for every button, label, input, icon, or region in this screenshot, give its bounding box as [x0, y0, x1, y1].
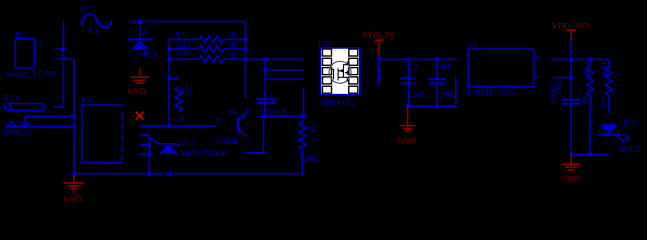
- node junction R12 right: [244, 47, 248, 51]
- svg-text:1.5uF: 1.5uF: [407, 89, 427, 99]
- svg-text:PWR2.5: PWR2.5: [3, 127, 32, 137]
- svg-text:LED5: LED5: [618, 117, 639, 127]
- node junction row2: [264, 68, 268, 72]
- svg-text:DZ1: DZ1: [179, 138, 195, 148]
- node junction jack sleeve pin b: [72, 125, 76, 129]
- svg-text:P10: P10: [4, 93, 17, 103]
- resistor R13 1K: [169, 48, 245, 63]
- node junction bracket GND bus: [148, 172, 152, 176]
- power VDD_3V3: [552, 21, 589, 41]
- wire right GND bus: [571, 153, 609, 155]
- node junction C84 top: [435, 58, 439, 62]
- node junction D1 top: [138, 20, 142, 24]
- svg-text:1K: 1K: [227, 50, 238, 60]
- svg-text:1K: 1K: [581, 95, 590, 105]
- diode D1 SR54: [128, 22, 159, 60]
- ground GND (right): [562, 154, 581, 170]
- svg-text:GND: GND: [562, 174, 580, 184]
- wire U16 pin wire row3: [265, 78, 304, 80]
- node junction zener anode on GND bus: [167, 172, 171, 176]
- wire emitter net to R8 node: [259, 115, 304, 117]
- node junction C2 bottom: [406, 104, 410, 108]
- wire left resistor bus: [168, 39, 170, 126]
- connector P10 barrel jack: [3, 93, 45, 137]
- transistor Q4 S8550: [216, 105, 251, 146]
- wire 3V3 rail vertical: [570, 40, 572, 99]
- node junction left bus to base wire: [167, 124, 171, 128]
- svg-text:U16: U16: [318, 39, 333, 49]
- wire GND bus right riser to R8: [302, 150, 304, 174]
- node junction R8 top: [302, 114, 306, 118]
- node junction R13 left: [167, 58, 171, 62]
- resistor R12 1K: [169, 39, 245, 53]
- no-ERC marker red X: [136, 112, 144, 121]
- ground GND (below D1): [130, 68, 149, 84]
- node junction C2 top: [407, 58, 411, 62]
- capacitor C85 100nF (vertical): [549, 80, 581, 154]
- node junction rail to U1 pin2: [569, 76, 573, 80]
- svg-text:SR54: SR54: [138, 50, 159, 60]
- node junction R30 top: [588, 58, 592, 62]
- svg-text:P15: P15: [15, 29, 28, 39]
- wire K3 contact stubs bracket: [140, 135, 150, 174]
- resistor R30 (vertical): [581, 59, 594, 154]
- resistor R8 10K (vertical): [299, 122, 319, 164]
- IC U16 FDS4935: [318, 39, 360, 108]
- resistor R10 (vertical): [599, 63, 612, 113]
- svg-text:R13: R13: [177, 48, 191, 58]
- capacitor C84: [429, 59, 457, 106]
- wire U16 pin4 drop to R8: [303, 88, 305, 116]
- svg-text:K3: K3: [81, 95, 91, 105]
- wire U1 out to 3V3 rail: [551, 58, 571, 60]
- svg-text:R11: R11: [176, 29, 190, 39]
- wire U16 pin wire row1: [245, 58, 304, 60]
- svg-text:GND: GND: [128, 86, 146, 96]
- resistor R11 1K: [169, 29, 245, 43]
- svg-text:VDD_5V: VDD_5V: [363, 30, 397, 40]
- node junction row1 to drop: [264, 58, 268, 62]
- svg-text:1.5A: 1.5A: [82, 26, 100, 36]
- node junction rail pin3: [377, 67, 381, 71]
- wire cap ground bus: [408, 76, 456, 107]
- fuse F1 1.5A: [81, 3, 113, 36]
- wire main top rail: [130, 21, 245, 23]
- wire 3V3 horizontal rail: [571, 59, 609, 66]
- svg-text:10uF: 10uF: [439, 89, 457, 99]
- connector P15: [5, 29, 55, 79]
- svg-text:C: C: [245, 136, 251, 146]
- svg-text:F1: F1: [81, 3, 90, 13]
- node junction R30 leg: [589, 153, 593, 157]
- wire R9 top stub: [169, 77, 178, 79]
- wire VDD_5V rail to U1: [379, 58, 458, 60]
- ground GND (middle): [399, 106, 415, 131]
- resistor R9 1K (vertical): [175, 86, 191, 123]
- node junction rail to U1 out: [569, 58, 573, 62]
- svg-text:10K: 10K: [303, 153, 319, 163]
- wire U1 pin2 to rail: [553, 76, 571, 78]
- node junction P15 pin1 on +12V vertical: [62, 47, 66, 51]
- wire R8 node down: [302, 116, 304, 121]
- relay K3: [81, 95, 122, 163]
- wire U16 pin wire row2: [265, 69, 304, 71]
- svg-text:100nF: 100nF: [266, 107, 288, 117]
- power VDD_5V: [363, 30, 397, 56]
- wire P15 pin1 stub: [55, 48, 64, 50]
- node junction R9 stub: [167, 76, 171, 80]
- svg-text:FDS4935: FDS4935: [321, 97, 354, 107]
- svg-text:R8: R8: [307, 123, 317, 133]
- capacitor C2 polarized: [401, 59, 427, 106]
- node junction C84 bottom: [435, 104, 439, 108]
- wire U16 right rail: [378, 56, 380, 86]
- capacitor C1 100nF: [257, 60, 288, 117]
- svg-text:LM1117-3.3V: LM1117-3.3V: [468, 88, 518, 98]
- node junction C85 leg: [569, 153, 573, 157]
- svg-text:1K: 1K: [176, 113, 187, 123]
- ground GND (bottom left): [63, 176, 84, 193]
- svg-text:BLUE: BLUE: [620, 144, 642, 154]
- svg-text:Header 2 DNP: Header 2 DNP: [5, 69, 55, 79]
- wire jack sleeve line a: [25, 115, 74, 117]
- svg-text:S8550: S8550: [216, 136, 238, 146]
- node junction R11 right: [244, 38, 248, 42]
- svg-text:R9: R9: [182, 86, 192, 96]
- node junction R12 left: [167, 47, 171, 51]
- svg-text:100nF: 100nF: [549, 83, 558, 104]
- LED LED5 BLUE: [599, 117, 642, 154]
- svg-text:B: B: [216, 116, 222, 126]
- svg-text:1K: 1K: [227, 40, 238, 50]
- svg-text:VDD_3V3: VDD_3V3: [552, 21, 589, 31]
- wire drop to rows 2-3: [264, 59, 266, 79]
- svg-text:1K: 1K: [227, 29, 238, 39]
- regulator U1 LM1117-3.3V: [468, 39, 540, 98]
- wire bottom GND bus: [74, 173, 303, 175]
- wire top rail corner down (right bus): [244, 22, 246, 99]
- node junction R13 right: [244, 58, 248, 62]
- svg-text:GND: GND: [64, 194, 82, 204]
- zener diode DZ1 MMSZ5231B: [149, 138, 228, 159]
- node junction C1 bottom: [262, 114, 266, 118]
- wire base net horizontal: [140, 125, 216, 127]
- wire GND vertical left column: [73, 59, 75, 182]
- node junction bracket mid: [148, 143, 152, 147]
- svg-text:Q4: Q4: [227, 106, 238, 116]
- node junction rail pin4: [377, 76, 381, 80]
- wire jack switch arrow: [24, 116, 26, 126]
- svg-text:GND: GND: [398, 136, 416, 146]
- node junction rail pin2: [377, 58, 381, 62]
- node junction bracket low: [148, 152, 152, 156]
- wire +12V vertical from top to barrel pin: [54, 21, 64, 107]
- svg-text:C1: C1: [263, 89, 273, 99]
- wire jack sleeve line b with switch bump: [6, 126, 74, 128]
- wire P15 pin2 stub: [55, 58, 74, 60]
- svg-text:+: +: [409, 69, 414, 79]
- svg-text:U1: U1: [468, 39, 478, 49]
- svg-text:D1: D1: [139, 27, 149, 37]
- svg-text:10K: 10K: [599, 95, 608, 109]
- node junction GND bottom: [72, 172, 76, 176]
- svg-text:MMSZ5231B: MMSZ5231B: [180, 148, 228, 158]
- node junction jack sleeve pin a: [72, 115, 76, 119]
- wire collector leg: [245, 116, 264, 153]
